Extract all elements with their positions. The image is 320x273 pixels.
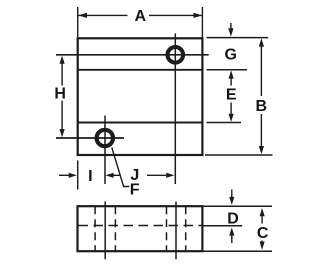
inner edge line (lower step) xyxy=(78,122,203,124)
dimension D arrows xyxy=(231,190,233,199)
bottom view horizontal centerline (dashed) xyxy=(79,225,203,227)
hidden hole lines right hole xyxy=(166,206,168,251)
bottom view bottom edge extension (for C) xyxy=(202,250,272,252)
svg-text:F: F xyxy=(130,182,140,199)
dimension G arrow xyxy=(230,23,232,30)
top view plate outline xyxy=(78,38,203,155)
svg-text:H: H xyxy=(54,86,66,103)
bottom view hole P1 vertical centerline xyxy=(175,202,177,260)
svg-text:I: I xyxy=(88,168,92,185)
left edge extension down (for I) xyxy=(77,161,79,190)
hole P2 vertical centerline xyxy=(104,116,106,185)
step line extension (right, for G/E) xyxy=(207,69,248,71)
bottom view block outline xyxy=(78,206,203,251)
dimension A extension line right xyxy=(201,7,203,38)
dimension C line xyxy=(261,211,263,224)
dimension B line xyxy=(260,42,262,96)
bottom view top edge extension (for D and C) xyxy=(202,205,272,207)
dimension A extension line left xyxy=(77,7,79,38)
svg-text:B: B xyxy=(256,98,268,115)
centerline extension right (for D) xyxy=(204,225,243,227)
svg-text:A: A xyxy=(135,8,147,25)
bottom view hole P2 vertical centerline xyxy=(104,202,106,260)
dimension H line xyxy=(61,59,63,86)
hole P1 vertical centerline xyxy=(174,34,176,185)
dimension A line xyxy=(78,14,127,16)
bottom edge extension (right, for B) xyxy=(205,154,273,156)
leader line F xyxy=(112,148,130,187)
hole P1 horizontal centerline xyxy=(56,54,209,56)
top edge extension (right, for G and B) xyxy=(207,37,269,39)
inner edge line (upper step) xyxy=(78,69,203,71)
dimension I outside arrow xyxy=(59,174,70,176)
hidden hole lines left hole xyxy=(94,206,96,251)
hole P1 ring xyxy=(168,47,184,63)
svg-text:C: C xyxy=(257,225,269,242)
svg-text:D: D xyxy=(227,210,239,227)
hole P2 horizontal centerline xyxy=(56,137,124,139)
dimension J line xyxy=(105,173,113,178)
lower step extension (right, for E) xyxy=(207,122,242,124)
svg-text:G: G xyxy=(224,46,236,63)
dimension E line xyxy=(230,75,232,86)
hole P2 ring xyxy=(97,130,113,146)
svg-text:E: E xyxy=(226,87,237,104)
